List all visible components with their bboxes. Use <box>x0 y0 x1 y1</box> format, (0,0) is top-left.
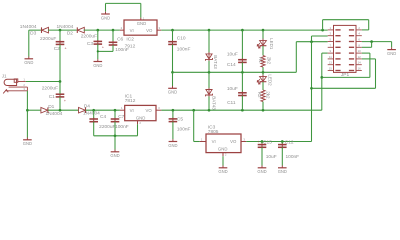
svg-text:100nF: 100nF <box>115 124 129 130</box>
svg-text:15: 15 <box>329 67 333 71</box>
svg-text:GND: GND <box>93 63 102 68</box>
wire D6 top lead <box>208 72 210 89</box>
ground GND (below J1) <box>23 138 32 147</box>
diode D5 BAT43 <box>206 52 213 61</box>
wire C5 bottom lead <box>172 122 174 140</box>
svg-text:C6: C6 <box>117 36 123 42</box>
diode D4 1N4004 <box>79 103 101 116</box>
svg-text:VO: VO <box>145 108 152 113</box>
svg-text:GND: GND <box>136 116 146 121</box>
svg-text:2200uF: 2200uF <box>42 86 58 92</box>
junction GND branch to pin 8 <box>370 40 373 43</box>
capacitor C11 10uF <box>227 86 247 106</box>
junction C14 bottom <box>241 71 244 74</box>
svg-text:GND: GND <box>387 51 396 56</box>
ground GND (below C5) <box>168 139 177 148</box>
wire C6 top lead <box>112 30 114 42</box>
svg-text:LED2: LED2 <box>268 74 273 86</box>
junction J1 tip / C2 / C1 <box>59 80 62 83</box>
capacitor C5 100nF <box>169 117 191 133</box>
wire C4 bottom lead <box>93 122 95 136</box>
capacitor C10 100nF <box>168 35 190 52</box>
wire D6 bottom lead <box>208 96 210 110</box>
junction C3/C6 gnd wire <box>97 50 99 52</box>
wire D5 bottom lead <box>208 61 210 73</box>
junction IC3 branch <box>192 109 195 112</box>
wire node B (D1 to D4) <box>48 109 79 111</box>
capacitor C2 2200uF <box>40 36 67 52</box>
wire -12V rail (IC2 VO to JP1 pin 1) <box>161 29 327 31</box>
svg-text:1: 1 <box>121 106 123 110</box>
svg-text:D1: D1 <box>48 104 54 110</box>
wire C10 bottom to GND rail <box>172 44 174 72</box>
svg-text:LED1: LED1 <box>269 38 274 50</box>
junction C14 top <box>241 29 244 32</box>
svg-text:1N4004: 1N4004 <box>20 24 37 30</box>
wire J1 tip to C1/C2 column <box>26 81 60 83</box>
svg-text:1N4004: 1N4004 <box>83 111 100 117</box>
svg-text:GND: GND <box>218 146 228 151</box>
wire R1 bottom lead <box>262 67 264 72</box>
svg-text:GND: GND <box>278 169 287 174</box>
svg-text:GND: GND <box>257 169 266 174</box>
wire D1 anode <box>27 109 41 111</box>
wire C12 bottom lead <box>281 147 283 165</box>
wire C15 bottom lead <box>261 147 263 165</box>
wire C14 top lead <box>241 30 243 59</box>
diode D6 BAT43 <box>206 88 213 97</box>
wire +5V branch to JP1 right pin 12 <box>312 59 376 88</box>
svg-text:VI: VI <box>130 108 134 113</box>
wire GND rail riser to JP1 pins 3/5 <box>296 42 327 73</box>
svg-text:7: 7 <box>330 43 332 47</box>
junction D6 bottom <box>208 109 211 112</box>
ground GND (above IC2) <box>101 12 110 21</box>
svg-text:GND: GND <box>168 90 177 95</box>
svg-text:4: 4 <box>358 32 360 36</box>
wire IC1 GND pin to bottom wire <box>137 124 139 136</box>
wire C5 top lead <box>172 110 174 118</box>
wire +12V branch to JP1 right pin 10 <box>322 53 370 77</box>
wire C10 top lead <box>172 30 174 41</box>
svg-text:16: 16 <box>358 67 362 71</box>
junction GND rail left end <box>171 71 174 74</box>
wire GND rail <box>173 71 297 73</box>
svg-text:2k2: 2k2 <box>267 57 272 65</box>
svg-text:2200uF: 2200uF <box>81 33 97 39</box>
svg-text:+: + <box>64 99 66 103</box>
svg-text:2: 2 <box>358 26 360 30</box>
junction C5 top <box>172 109 175 112</box>
wire bottom GND wire <box>94 135 138 137</box>
svg-text:1: 1 <box>23 77 25 81</box>
svg-text:IC2: IC2 <box>126 36 134 42</box>
junction C4 top <box>92 109 95 112</box>
svg-text:C1: C1 <box>49 94 55 100</box>
wire C14 bottom lead <box>241 62 243 72</box>
connector JP1 (2x8 pin header) <box>328 25 362 78</box>
svg-text:D4: D4 <box>84 103 90 109</box>
svg-text:2: 2 <box>121 26 123 30</box>
junction +5V branch <box>310 87 313 90</box>
diode D3 1N4004 <box>20 24 49 36</box>
wire +12V riser to JP1 pins <box>322 53 328 110</box>
capacitor C6 100nF <box>109 36 129 53</box>
wire JP1 pin 6 to GND <box>362 42 392 48</box>
wire C1 top lead <box>59 82 61 94</box>
capacitor C14 10uF <box>227 51 247 68</box>
svg-text:10uF: 10uF <box>266 154 277 160</box>
wire node C (D3 to D2) <box>48 29 77 31</box>
wire -raw (D2 to IC2 VI) <box>84 29 120 31</box>
svg-text:C2: C2 <box>54 46 60 52</box>
wire C12 top lead <box>281 142 283 145</box>
ground GND (below C15) <box>257 166 266 175</box>
junction C15 top <box>261 140 264 143</box>
junction R2 bottom <box>262 109 265 112</box>
wire C4 top lead <box>93 110 95 118</box>
junction R1 bottom <box>262 71 265 74</box>
diode D2 1N4004 <box>56 24 84 36</box>
wire LED2 to R2 <box>262 82 264 90</box>
wire -12V loop to JP1 pin 2 <box>323 20 369 30</box>
wire LED2 top lead <box>262 72 264 76</box>
svg-text:11: 11 <box>329 55 332 59</box>
junction C10 top <box>171 29 174 32</box>
resistor R2 2k2 <box>261 90 265 102</box>
svg-text:2200uF: 2200uF <box>40 36 56 42</box>
svg-text:C4: C4 <box>100 114 106 120</box>
wire +12V rail (IC1 VO to riser) <box>161 109 321 111</box>
junction C12 top <box>281 140 284 143</box>
ground GND (right of JP1) <box>387 47 396 56</box>
ground GND (below C12) <box>278 166 287 175</box>
svg-text:GND: GND <box>137 21 147 26</box>
wire C3 top lead <box>97 30 99 41</box>
junction C3 top <box>96 29 99 32</box>
wire branch to JP1 pin 8 <box>362 42 372 48</box>
svg-text:1N4004: 1N4004 <box>45 111 62 117</box>
wire +raw (D4 to IC1 VI) <box>86 109 120 111</box>
svg-text:9: 9 <box>330 49 332 53</box>
svg-text:C5: C5 <box>177 117 183 123</box>
junction GND drop <box>114 134 117 137</box>
junction D5 bottom <box>208 71 211 74</box>
svg-text:GND: GND <box>110 153 119 158</box>
svg-text:6: 6 <box>358 38 360 42</box>
ground GND (below IC3) <box>218 166 227 175</box>
svg-text:13: 13 <box>329 61 333 65</box>
svg-text:10uF: 10uF <box>227 51 238 57</box>
capacitor C12 100nF <box>278 139 299 160</box>
svg-text:+: + <box>65 46 67 50</box>
svg-text:D2: D2 <box>67 31 73 37</box>
wire IC3 GND to symbol <box>222 156 224 165</box>
ground GND (below C4/C7) <box>110 136 119 158</box>
diode D1 1N4004 <box>41 104 63 117</box>
wire +5V (IC3 VO to riser) <box>246 141 311 143</box>
svg-text:VI: VI <box>130 28 134 33</box>
svg-text:VO: VO <box>146 28 153 33</box>
junction +12V branch <box>320 76 323 79</box>
svg-text:8: 8 <box>358 43 360 47</box>
wire LED1 to R1 <box>262 46 264 56</box>
connector J1 (DC power jack) <box>2 73 28 93</box>
junction C6 top <box>112 29 115 32</box>
svg-text:+: + <box>257 140 259 144</box>
wire C2 bottom lead to J1 tip net <box>59 44 61 81</box>
svg-text:R2: R2 <box>257 92 262 98</box>
svg-text:1N4004: 1N4004 <box>56 24 73 30</box>
svg-text:J1: J1 <box>2 73 7 78</box>
svg-text:C11: C11 <box>227 100 236 106</box>
capacitor C1 2200uF <box>42 86 66 103</box>
svg-text:2200uF: 2200uF <box>99 124 115 130</box>
wire C2 top lead <box>59 30 61 41</box>
wire R2 bottom lead <box>262 102 264 111</box>
svg-text:GND: GND <box>23 141 32 146</box>
voltage regulator IC1 7812 <box>120 93 161 125</box>
svg-text:3: 3 <box>330 32 332 36</box>
svg-text:VI: VI <box>212 139 216 144</box>
wire C15 top lead <box>261 142 263 145</box>
wire +12V to IC3 VI <box>194 110 200 141</box>
svg-text:VO: VO <box>230 139 237 144</box>
svg-text:100nF: 100nF <box>286 154 300 160</box>
svg-text:BAT43: BAT43 <box>212 96 217 110</box>
wire D3 cathode to GND stub <box>29 30 41 56</box>
svg-text:12: 12 <box>358 55 362 59</box>
junction C11 bottom <box>241 109 244 112</box>
wire C7 bottom lead <box>114 122 116 136</box>
ground GND (below C10) <box>168 72 177 94</box>
svg-text:3: 3 <box>243 137 245 141</box>
svg-text:GND: GND <box>218 169 227 174</box>
svg-text:2: 2 <box>225 153 227 157</box>
wire LED1 top lead <box>262 30 264 40</box>
svg-text:C10: C10 <box>177 35 186 41</box>
op-amp-style box U: voltage regulator IC2 7912 <box>120 16 161 49</box>
wire C11 bottom lead <box>241 96 243 111</box>
wire +5V riser (IC3 VO to JP1) <box>311 42 313 142</box>
junction D5 column top <box>208 29 211 32</box>
diode LED1 <box>257 39 266 48</box>
wire JP1 pin3 jog <box>312 36 328 42</box>
svg-text:14: 14 <box>358 61 362 65</box>
capacitor C4 2200uF <box>89 114 115 130</box>
voltage regulator IC3 7805 <box>200 125 247 157</box>
wire IC2 GND pin to GND symbol <box>106 3 141 17</box>
svg-text:7805: 7805 <box>208 129 219 135</box>
svg-text:7812: 7812 <box>125 98 136 104</box>
svg-text:10uF: 10uF <box>227 86 238 92</box>
svg-text:+: + <box>102 46 104 50</box>
svg-text:C14: C14 <box>227 62 236 68</box>
svg-text:1: 1 <box>201 137 203 141</box>
svg-text:2k2: 2k2 <box>266 91 271 99</box>
junction +5V riser on GND wire <box>310 40 313 43</box>
svg-text:3: 3 <box>158 106 160 110</box>
junction C7 top <box>114 109 117 112</box>
svg-text:C7: C7 <box>118 114 124 120</box>
capacitor C15 10uF <box>257 139 276 160</box>
svg-text:3: 3 <box>159 26 161 30</box>
svg-text:1: 1 <box>330 26 332 30</box>
junction sleeve/D1 anode <box>26 109 29 112</box>
resistor R1 2k2 <box>261 56 265 68</box>
svg-text:2: 2 <box>139 121 141 125</box>
svg-text:GND: GND <box>101 15 110 20</box>
svg-text:D3: D3 <box>30 31 36 37</box>
svg-text:GND: GND <box>24 60 33 65</box>
capacitor C3 2200uF <box>81 33 104 49</box>
svg-text:JP1: JP1 <box>341 72 350 78</box>
svg-text:10: 10 <box>358 49 362 53</box>
wire C6 bottom lead <box>112 45 114 51</box>
svg-text:5: 5 <box>330 38 332 42</box>
capacitor C7 100nF <box>111 114 129 130</box>
svg-text:7912: 7912 <box>125 43 136 49</box>
svg-text:GND: GND <box>168 143 177 148</box>
wire J1 sleeve down to GND <box>26 91 28 138</box>
ground GND (below C3) <box>93 59 102 68</box>
wire C1 bottom lead <box>59 97 61 110</box>
svg-text:100nF: 100nF <box>177 127 191 133</box>
wire C7 top lead <box>114 110 116 118</box>
svg-text:C15: C15 <box>263 139 272 145</box>
junction LED1 top <box>262 29 265 32</box>
junction C1 bottom / node B <box>59 109 62 112</box>
svg-text:C3: C3 <box>87 41 93 47</box>
wire D5 top lead <box>208 30 210 53</box>
svg-text:C12: C12 <box>285 139 294 145</box>
diode LED2 <box>257 75 266 84</box>
wire C3 bottom to GND <box>98 44 113 59</box>
svg-text:R1: R1 <box>258 57 263 63</box>
wire C11 top lead <box>241 72 243 92</box>
junction -12V to JP1 right loop <box>321 29 324 32</box>
ground GND (left of D3) <box>24 57 33 66</box>
svg-text:BAT43: BAT43 <box>213 55 218 69</box>
junction node C / C2 top <box>59 29 62 32</box>
svg-text:100nF: 100nF <box>177 46 191 52</box>
